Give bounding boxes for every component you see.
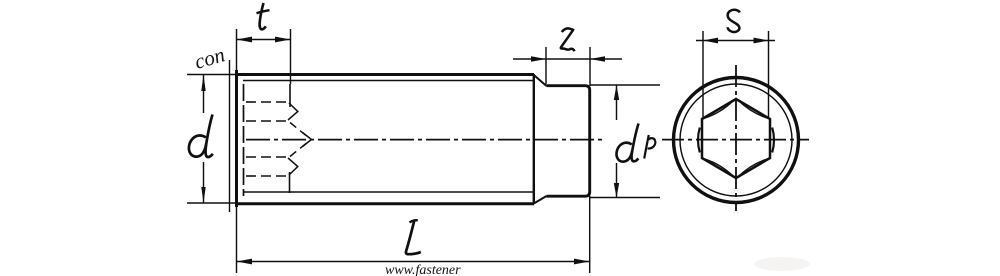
end view outer circle <box>674 78 799 203</box>
label dp: p subscript <box>644 135 649 159</box>
chamfer shoulder vertical <box>533 74 535 204</box>
dimension t right arrow <box>275 37 291 43</box>
dimension L line <box>237 261 590 263</box>
label s <box>728 10 740 32</box>
dimension L extension left <box>236 207 238 273</box>
thread minor diameter bottom line <box>243 191 533 193</box>
svg-text:www.fastener: www.fastener <box>385 263 461 276</box>
dimension z extension left <box>545 47 547 84</box>
dimension t left arrow <box>237 37 253 43</box>
dimension dp line lower <box>616 163 618 198</box>
label d <box>205 115 212 158</box>
dimension z extension right <box>589 47 591 86</box>
dimension L extension right <box>589 196 591 273</box>
label dp: d <box>631 124 638 162</box>
dimension d line upper <box>203 75 205 114</box>
hex corner sliver lower-left <box>705 159 734 177</box>
end view horizontal centerline <box>662 139 809 141</box>
dimension z left arrow <box>531 56 546 62</box>
screw body bottom outline <box>236 202 535 205</box>
dimension d down arrow <box>201 187 205 203</box>
socket drill arc left <box>698 128 700 153</box>
dimension L right arrow <box>574 259 590 265</box>
dimension d up arrow <box>201 75 205 92</box>
socket bottom wall lower segment <box>289 172 291 193</box>
bottom chamfer diagonal <box>534 196 547 204</box>
dimension d extension bottom <box>187 202 236 204</box>
left chamfer line <box>243 84 245 196</box>
side view centerline <box>246 139 605 141</box>
point cylinder top <box>547 86 590 197</box>
dimension s right arrow <box>754 38 769 44</box>
dimension dp down arrow <box>614 183 619 198</box>
dimension s extension right <box>768 31 770 118</box>
socket hidden line A <box>246 101 289 103</box>
end view vertical centerline <box>735 65 737 211</box>
dimension s extension left <box>702 31 704 118</box>
watermark smudge bottom right <box>754 257 810 271</box>
dimension d extension top <box>187 74 236 76</box>
thread minor diameter top line <box>243 80 533 82</box>
hex corner sliver upper-left <box>705 101 734 119</box>
hex corner sliver lower-right <box>739 159 768 177</box>
upper socket cone chevron <box>288 103 298 120</box>
label L <box>410 220 418 222</box>
dimension L left arrow <box>237 259 253 265</box>
dimension z line <box>513 58 622 60</box>
dimension dp line upper <box>616 85 618 120</box>
socket hidden line D <box>246 175 289 177</box>
end view chamfer circle <box>680 84 792 196</box>
dimension t extension right <box>290 29 292 84</box>
lower socket cone chevron <box>288 158 298 175</box>
left face outer line <box>229 60 231 212</box>
dimension s line <box>696 40 775 42</box>
drill cone tip chevron <box>303 133 312 147</box>
socket hidden line C <box>246 156 288 158</box>
dimension t extension left <box>236 29 238 70</box>
hex socket outline <box>702 99 770 178</box>
label z <box>561 28 575 51</box>
left face edge <box>235 70 238 207</box>
dimension s left arrow <box>703 38 718 44</box>
screw body top outline <box>236 73 535 76</box>
dimension dp extension bottom <box>590 197 660 199</box>
dimension dp extension top <box>590 84 660 86</box>
label t <box>260 3 266 29</box>
drill cone upper dashed diagonal <box>290 123 311 140</box>
dimension z right arrow <box>590 56 605 62</box>
socket hidden line B <box>246 120 288 122</box>
dimension dp up arrow <box>614 85 619 100</box>
drill cone lower dashed diagonal <box>290 140 311 157</box>
dimension t line <box>237 39 291 41</box>
hex corner sliver upper-right <box>739 101 768 119</box>
dimension d line lower <box>203 162 205 203</box>
top chamfer diagonal <box>534 75 547 86</box>
socket bottom wall upper segment <box>289 84 291 107</box>
socket drill arc right <box>772 128 774 153</box>
